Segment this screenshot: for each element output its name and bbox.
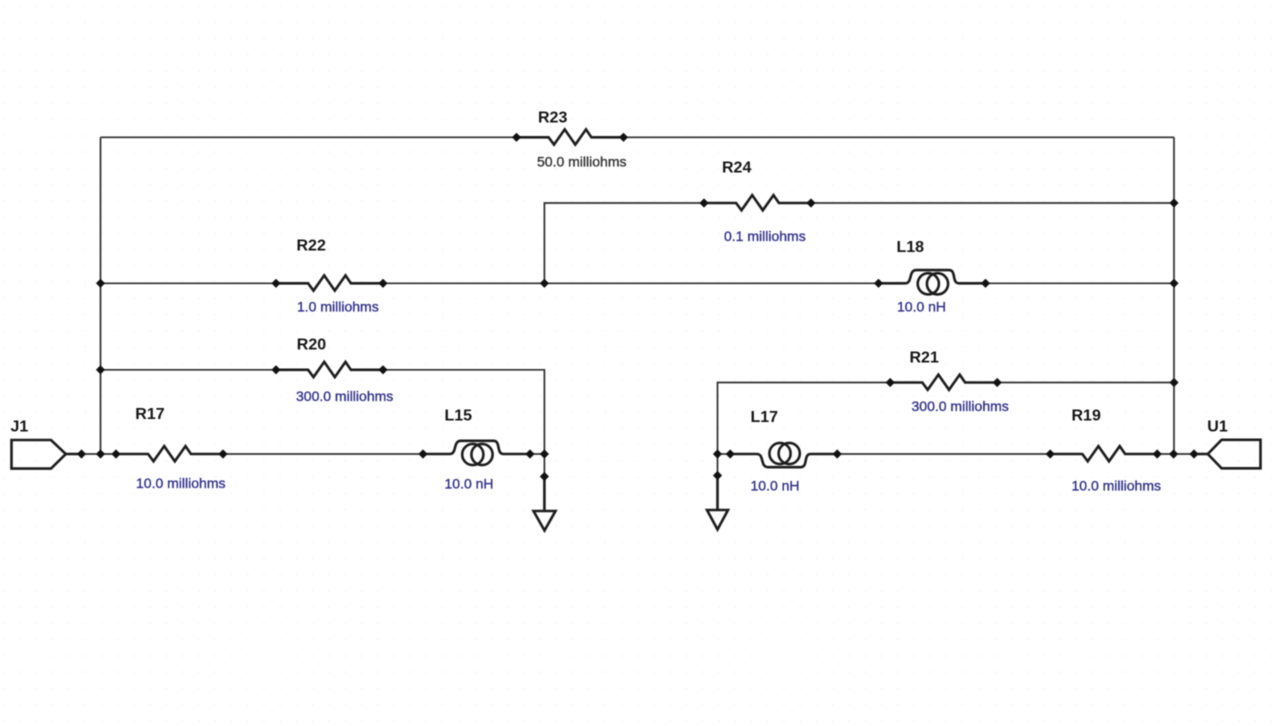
svg-text:10.0 milliohms: 10.0 milliohms (136, 475, 225, 491)
resistor R20 (271, 362, 387, 377)
wire: R21 row from R21 to right bus (998, 382, 1175, 384)
svg-text:0.1 milliohms: 0.1 milliohms (724, 228, 806, 244)
pin 2 of L15 (525, 449, 534, 458)
junction right bus / main row (1169, 449, 1178, 458)
wire: R24 row left stub with corner down to R22 row (544, 203, 704, 283)
pin 1 of R21 (886, 378, 895, 387)
pin 2 of R24 (806, 198, 815, 207)
inductor L18 (874, 270, 990, 294)
wire: R22 row from L18 to right bus (986, 282, 1175, 284)
wire: main row L17 corner stub (718, 453, 731, 455)
svg-text:R22: R22 (297, 238, 326, 255)
ground symbol at L15 node (534, 472, 556, 531)
wire: left vertical bus net J1 (100, 137, 102, 454)
resistor R19 (1046, 446, 1162, 461)
junction R21 drop / main row (713, 449, 722, 458)
ground symbol at L17 node (707, 471, 728, 530)
svg-text:R21: R21 (910, 349, 939, 366)
inductor L17 (726, 443, 842, 467)
pin 2 of R19 (1153, 449, 1162, 458)
wire: main row J1 pin to R17 (82, 453, 117, 455)
svg-text:J1: J1 (11, 418, 29, 435)
svg-text:L15: L15 (445, 407, 473, 424)
junction left bus / R20 row (96, 365, 105, 374)
pin 1 of U1 (1189, 449, 1198, 458)
wire: ground stub below L17 node (717, 454, 719, 476)
pin 1 of R24 (699, 198, 708, 207)
pin of left ground (540, 472, 549, 481)
wire: right vertical bus net U1 (1173, 137, 1175, 454)
resistor R23 (512, 129, 628, 144)
resistor R21 (886, 375, 1002, 390)
wire: R22 row from left bus to R22 (101, 282, 277, 284)
wire: R22 row from R22 to L18 (383, 282, 879, 284)
svg-text:50.0 milliohms: 50.0 milliohms (537, 154, 626, 170)
pin 2 of R20 (378, 365, 387, 374)
pin 2 of L18 (981, 279, 990, 288)
pin 1 of R20 (271, 365, 280, 374)
junction L15 node / main row (540, 449, 549, 458)
wire: main row L15 to vertical node (530, 453, 544, 455)
svg-text:10.0 nH: 10.0 nH (751, 478, 800, 494)
pin 2 of L17 (833, 449, 842, 458)
wire: top row left of R23 (101, 136, 517, 138)
pin 1 of L15 (418, 449, 427, 458)
resistor R24 (699, 195, 815, 210)
junction R24 drop / R22 row (540, 279, 549, 288)
connector J1 (12, 440, 87, 469)
wire: R21 row from corner to R21 (718, 383, 891, 455)
junction left bus / R22 row (96, 279, 105, 288)
wire: R24 row right of R24 (811, 202, 1174, 204)
inductor L15 (418, 441, 534, 465)
wire: R20 row from left bus to R20 (101, 369, 277, 371)
svg-text:1.0 milliohms: 1.0 milliohms (297, 299, 379, 315)
svg-text:U1: U1 (1207, 419, 1228, 436)
wire: ground stub below L15 node (543, 454, 545, 477)
svg-text:300.0 milliohms: 300.0 milliohms (296, 388, 393, 404)
junction right bus / R21 row (1169, 378, 1178, 387)
pin 1 of J1 (77, 449, 86, 458)
pin of right ground (713, 471, 722, 480)
svg-text:10.0 nH: 10.0 nH (445, 475, 494, 491)
pin 2 of R17 (218, 449, 227, 458)
svg-text:10.0 milliohms: 10.0 milliohms (1072, 478, 1161, 494)
pin 1 of L17 (726, 449, 735, 458)
svg-text:R20: R20 (297, 336, 326, 353)
pin 2 of R22 (378, 279, 387, 288)
pin 1 of R17 (111, 449, 120, 458)
junction left bus / main row (96, 449, 105, 458)
svg-text:L17: L17 (751, 409, 779, 426)
pin 1 of R19 (1046, 449, 1055, 458)
pin 1 of R22 (271, 279, 280, 288)
resistor R22 (271, 275, 387, 290)
wire: main row R17 to L15 (223, 453, 423, 455)
svg-text:L18: L18 (897, 239, 925, 256)
wire: main row L17 to R19 (838, 453, 1051, 455)
wire: main row R19 to U1 pin (1158, 453, 1195, 455)
svg-text:R17: R17 (135, 406, 164, 423)
pin 1 of L18 (874, 279, 883, 288)
junction right bus / R24 row (1169, 198, 1178, 207)
wire: R20 row from R20 with corner down to main row (383, 370, 544, 454)
pin 2 of R21 (993, 378, 1002, 387)
pin 1 of R23 (512, 133, 521, 142)
svg-text:R24: R24 (722, 159, 751, 176)
svg-text:R23: R23 (538, 109, 567, 126)
resistor R17 (111, 446, 227, 461)
connector U1 (1189, 440, 1260, 469)
svg-text:10.0 nH: 10.0 nH (897, 298, 946, 314)
junction right bus / R22 row (1169, 279, 1178, 288)
pin 2 of R23 (619, 133, 628, 142)
svg-text:300.0 milliohms: 300.0 milliohms (912, 398, 1009, 414)
wire: top row right of R23 (624, 136, 1175, 138)
svg-text:R19: R19 (1072, 407, 1101, 424)
